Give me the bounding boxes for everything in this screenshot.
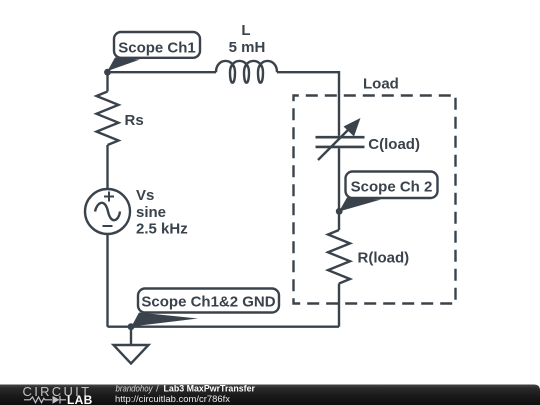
svg-text:R(load): R(load) [358,249,410,266]
svg-text:5 mH: 5 mH [229,39,266,56]
svg-text:L: L [241,22,250,39]
voltage source Vs circle [85,189,130,234]
wire: Vs to bottom wire [106,234,108,327]
Vs plus sign [104,192,114,202]
capacitor C(load) variable arrow [318,129,349,160]
Vs sine wave [95,203,120,220]
wire: resistor to bottom [338,284,340,327]
label L value [229,22,266,56]
svg-text:Scope Ch 2: Scope Ch 2 [351,179,433,196]
wire: Rs to Vs [106,145,108,189]
ground node dot [128,323,135,330]
callout Scope Ch 2 box [346,172,438,199]
footer bar [0,385,540,405]
label Vs value [136,187,188,238]
svg-text:/: / [156,384,159,395]
svg-text:sine: sine [136,204,166,221]
svg-text:brandohoy: brandohoy [116,384,154,395]
svg-text:http://circuitlab.com/cr786fx: http://circuitlab.com/cr786fx [115,394,230,405]
svg-text:LAB: LAB [67,393,93,405]
dashed load box [294,96,456,304]
wire bottom horizontal [108,326,340,328]
svg-text:Load: Load [363,75,399,92]
callout Scope Ch1&2 GND tail [132,313,199,327]
callout Scope Ch 2 tail [339,198,381,212]
inductor L [216,61,277,83]
callout Scope Ch1 box [114,32,200,58]
wire: node A down to Rs [106,72,108,91]
footer logo resistor-diode squiggle [24,396,66,404]
svg-text:Lab3 MaxPwrTransfer: Lab3 MaxPwrTransfer [164,384,256,395]
node A dot [104,69,111,76]
ground [114,327,149,364]
wire: capacitor to node B [338,148,340,211]
svg-text:Vs: Vs [136,187,154,204]
node B dot [336,208,343,215]
wire top: node A to inductor [108,71,217,73]
resistor R(load) [328,230,350,284]
callout Scope Ch1&2 GND box [138,289,279,313]
resistor Rs [97,92,119,146]
capacitor C(load) plates [316,137,365,147]
callout Scope Ch1 tail [108,58,141,72]
svg-text:Rs: Rs [125,112,144,129]
svg-text:C(load): C(load) [368,136,420,153]
svg-text:Scope Ch1: Scope Ch1 [118,40,196,57]
svg-text:2.5 kHz: 2.5 kHz [136,221,188,238]
Vs minus sign [103,225,113,227]
svg-text:Scope Ch1&2 GND: Scope Ch1&2 GND [141,294,275,311]
wire: node B to resistor [338,211,340,231]
wire: inductor to top-right corner, down to capacitor [277,72,339,136]
